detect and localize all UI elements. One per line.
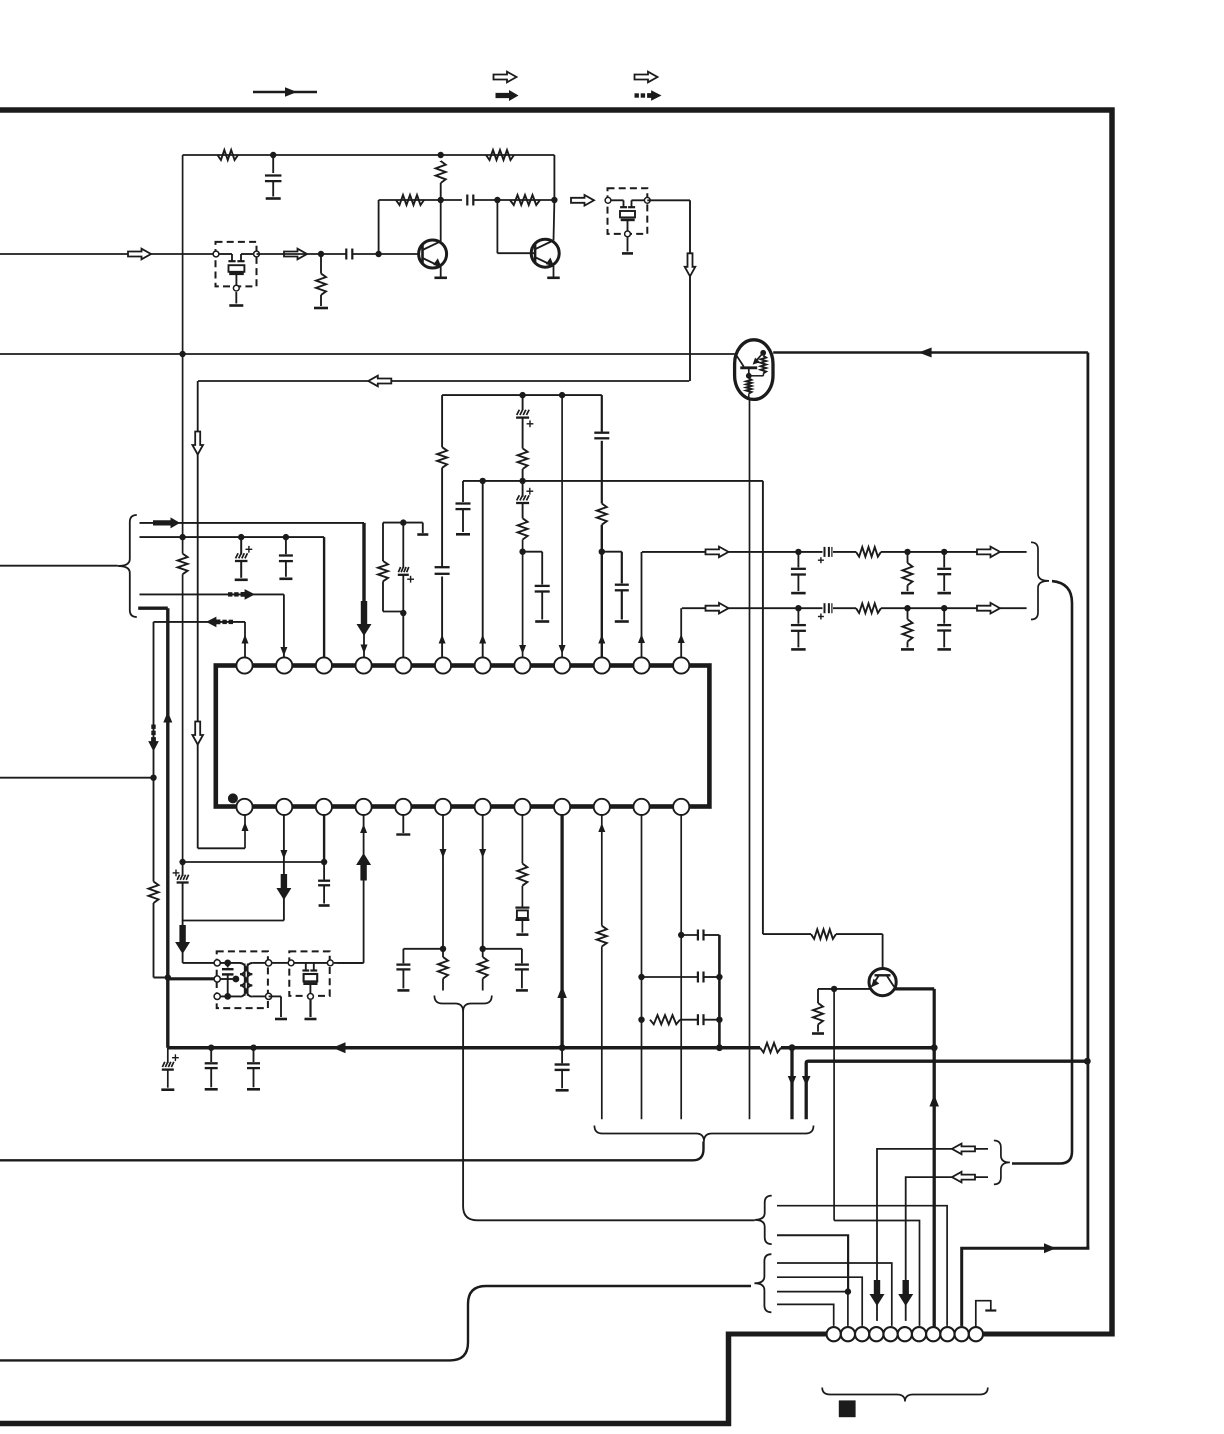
arrow out2 out bbox=[977, 603, 1000, 614]
resistor R23 shunt bbox=[903, 605, 913, 647]
wire line5 bbox=[154, 622, 249, 657]
brace outputs bbox=[1031, 542, 1049, 619]
resistor R11 loop bbox=[378, 523, 403, 612]
wire connector rail right bbox=[982, 1332, 1114, 1337]
node rail2 a bbox=[480, 478, 486, 484]
arrow on Q3 collector bbox=[919, 348, 932, 358]
wire line5 drop bbox=[153, 622, 155, 882]
node J7 bbox=[179, 351, 185, 357]
wire vbias bbox=[182, 155, 184, 862]
wire vcc drop a bbox=[788, 1048, 797, 1120]
legend hollow arrow 2 bbox=[635, 72, 658, 83]
wire FL3 gnd bbox=[309, 1000, 311, 1017]
ground C31 bbox=[791, 592, 806, 595]
wire af line1 bbox=[877, 1149, 988, 1321]
resistor R2 bbox=[218, 150, 239, 160]
capacitor C15 bbox=[594, 433, 609, 439]
capacitor C35 series electrolytic bbox=[818, 603, 832, 619]
arrow down FL2 out bbox=[685, 253, 696, 276]
connector CN1 bbox=[827, 1327, 983, 1341]
node line2 a bbox=[179, 534, 185, 540]
resistor R15 bbox=[478, 957, 488, 991]
wire FL2 out bbox=[647, 200, 690, 381]
capacitor C13 electrolytic bbox=[516, 481, 533, 518]
ground C24 bbox=[556, 1089, 569, 1092]
node rail2 b bbox=[519, 478, 525, 484]
bar pinB5 bbox=[396, 833, 410, 835]
ground C2 bbox=[266, 197, 281, 200]
transformer T1 box bbox=[217, 951, 268, 1008]
arrow sense bbox=[1044, 1243, 1056, 1253]
arrow det 1 bbox=[192, 432, 203, 455]
node bus r bbox=[789, 1044, 796, 1051]
wire pinB10 bbox=[598, 815, 605, 1119]
resistor R1 shunt bbox=[316, 254, 326, 306]
ic U1 top pins bbox=[236, 657, 689, 673]
wire Q4 base bbox=[836, 934, 883, 968]
wire cap join bbox=[718, 935, 721, 1048]
ic U1 bbox=[216, 666, 710, 807]
arrow out2 a bbox=[706, 603, 729, 614]
wire border step bbox=[726, 1332, 732, 1427]
wire bottom border bbox=[0, 1421, 731, 1427]
wire connector rail left bbox=[729, 1332, 828, 1337]
wire pin8 lower bbox=[519, 540, 526, 658]
capacitor C2 bbox=[265, 155, 282, 197]
ground C19 bbox=[279, 577, 292, 580]
ground CN1 bbox=[976, 1301, 997, 1327]
wire pin8 mid bbox=[522, 469, 524, 481]
arrow vcc b bbox=[802, 1076, 811, 1086]
wire ctrl2 b bbox=[777, 1277, 862, 1326]
ground C34 bbox=[791, 648, 806, 651]
wire vcc route b bbox=[806, 1061, 1086, 1119]
wire det line bbox=[198, 381, 249, 848]
resistor R17 bbox=[597, 926, 607, 947]
ground C16 bbox=[615, 620, 629, 623]
wire ctrl2 a bbox=[777, 1263, 892, 1326]
legend dashed arrow bbox=[635, 90, 662, 101]
arrow af2 fat bbox=[898, 1280, 913, 1306]
wire stage2 bbox=[379, 200, 462, 254]
capacitor C31 shunt bbox=[791, 549, 806, 591]
node vcc join bbox=[1084, 1058, 1091, 1065]
resistor R5 bbox=[396, 195, 424, 205]
ground FL1 bbox=[229, 292, 243, 306]
wire af line2 bbox=[906, 1177, 988, 1321]
wire harness stub bbox=[0, 565, 118, 567]
resistor R9 bbox=[518, 518, 528, 539]
wire ctrl1 a bbox=[777, 1206, 947, 1326]
node pin5 top bbox=[400, 519, 406, 525]
arrow af2 bbox=[952, 1172, 975, 1183]
wire long sense bbox=[1087, 353, 1090, 1247]
resistor R8 bbox=[518, 448, 528, 469]
wire conn10 drop bbox=[961, 1248, 963, 1326]
wire out1 main bbox=[642, 551, 1027, 553]
brace CN1 bbox=[822, 1388, 988, 1402]
capacitor C1 series bbox=[346, 249, 352, 260]
ceramic filter FL1 bbox=[213, 251, 259, 291]
wire top border bbox=[0, 107, 1115, 113]
capacitor C19 bbox=[279, 537, 293, 577]
wire sense bottom bbox=[962, 1246, 1088, 1326]
node J6 bbox=[551, 197, 557, 203]
ceramic filter FL1 box bbox=[216, 242, 257, 287]
node line2 c bbox=[283, 534, 289, 540]
node cap join mid bbox=[716, 974, 722, 980]
ground C21 bbox=[319, 904, 330, 907]
transistor Q4 bbox=[869, 969, 896, 996]
ground C30 bbox=[247, 1088, 260, 1091]
ceramic filter FL3 bbox=[288, 960, 333, 999]
node J2 bbox=[375, 251, 381, 257]
wire pinB6 bbox=[440, 815, 447, 957]
ground Q2 emitter bbox=[547, 276, 560, 279]
ground C22 bbox=[397, 989, 409, 992]
wire pinB2 drop bbox=[280, 815, 287, 921]
capacitor C26 series bbox=[698, 1014, 720, 1025]
capacitor C24 bbox=[555, 1065, 570, 1089]
wire T1 top lead bbox=[183, 962, 214, 964]
arrow out1 a bbox=[706, 547, 729, 558]
arrow to FL2 bbox=[571, 195, 594, 206]
capacitor C23 bbox=[483, 949, 529, 989]
wire Q4 sense bbox=[833, 989, 835, 1221]
wire conn8 thick bbox=[929, 1048, 939, 1328]
resistor R7 bbox=[437, 447, 447, 468]
wire pin12 riser bbox=[678, 608, 685, 657]
capacitor C16 bbox=[602, 552, 629, 620]
legend signal wire bbox=[253, 87, 317, 97]
capacitor C3 series bbox=[467, 195, 473, 206]
arrow pinB2 fat bbox=[276, 874, 291, 900]
wire Q3 collector bbox=[773, 351, 1088, 354]
capacitor C25 series bbox=[642, 972, 720, 983]
capacitor C30 bbox=[247, 1048, 260, 1088]
node B11 a bbox=[638, 974, 644, 980]
resistor R16 bbox=[517, 864, 527, 886]
node J4 bbox=[270, 152, 276, 158]
ground Q1 emitter bbox=[434, 276, 447, 279]
capacitor C34 shunt bbox=[791, 605, 806, 647]
legend solid arrow bbox=[496, 90, 519, 101]
arrow af1 fat bbox=[870, 1280, 885, 1306]
wire right border bbox=[1109, 108, 1115, 1337]
ground R22 bbox=[901, 592, 914, 595]
brace af bbox=[994, 1141, 1010, 1185]
wire pinB9 bbox=[557, 815, 567, 1063]
capacitor C32 series electrolytic bbox=[818, 547, 832, 563]
capacitor C22 bbox=[396, 949, 443, 989]
wire return line bbox=[198, 380, 689, 382]
wire pin7 branch bbox=[479, 481, 486, 657]
ground R25 bbox=[812, 1032, 824, 1035]
resistor R20 audio L bbox=[856, 547, 881, 557]
wire pin11 riser bbox=[638, 552, 645, 657]
node pin8 bbox=[519, 549, 525, 555]
node bus c29 bbox=[208, 1045, 214, 1051]
wire pin5 drop bbox=[402, 613, 404, 657]
node bus end bbox=[931, 1044, 938, 1051]
ground C28 bbox=[161, 1088, 174, 1091]
node bias b3 bbox=[321, 859, 327, 865]
mark board bbox=[839, 1400, 856, 1417]
node B6 bbox=[440, 946, 446, 952]
node B12 bbox=[678, 932, 684, 938]
resistor R22 shunt bbox=[903, 549, 913, 591]
node B11 b bbox=[638, 1017, 644, 1023]
capacitor C33 shunt bbox=[937, 549, 951, 591]
legend hollow arrow 1 bbox=[494, 72, 517, 83]
resistor R13 bbox=[178, 554, 188, 575]
wire pinB7 bbox=[479, 815, 486, 957]
wire ctrl2 c bbox=[777, 1291, 848, 1293]
wire Q3 emitter drop bbox=[749, 399, 751, 1119]
wire pinB12 bbox=[680, 815, 682, 1119]
wire line3 bbox=[140, 594, 284, 657]
node rail1 b bbox=[559, 392, 565, 398]
node cap join bus bbox=[716, 1044, 723, 1051]
resistor R10 bbox=[597, 504, 607, 525]
arrow left on return bbox=[368, 376, 391, 387]
capacitor C11 series bbox=[435, 567, 450, 574]
brace ctrl2 bbox=[754, 1254, 771, 1312]
wire rail1 bbox=[442, 394, 602, 396]
underbrace ic low bbox=[594, 1126, 813, 1142]
capacitor C17 electrolytic bbox=[398, 523, 414, 612]
ceramic filter FL2 box bbox=[608, 188, 648, 234]
wire pinB4 bbox=[338, 815, 368, 963]
resistor R18 bbox=[650, 1015, 698, 1024]
wire C1 to Q1 bbox=[352, 253, 418, 255]
ground C33 bbox=[937, 592, 951, 595]
wire Q3 base feed bbox=[733, 353, 736, 355]
wire pin9 branch bbox=[559, 395, 566, 657]
wire top rail drop bbox=[553, 155, 555, 200]
node cap join low bbox=[716, 1017, 722, 1023]
wire line4 bbox=[138, 608, 168, 1047]
capacitor C36 shunt bbox=[937, 605, 951, 647]
node J3b bbox=[438, 152, 444, 158]
transistor Q1 bbox=[419, 200, 447, 277]
node pin10 bbox=[599, 549, 605, 555]
ground C10 bbox=[456, 533, 470, 536]
wire pinB11 bbox=[641, 815, 643, 1119]
resistor R14 bbox=[438, 957, 448, 991]
arrow line4 up bbox=[163, 712, 172, 723]
wire pin10 branch bbox=[598, 395, 605, 657]
node bus c30 bbox=[250, 1045, 256, 1051]
wire pin6 branch bbox=[439, 395, 446, 657]
wire ctrl1 b bbox=[777, 1235, 848, 1291]
ground FL3 bbox=[305, 1018, 317, 1021]
brace xtal group bbox=[434, 996, 491, 1012]
capacitor C28 electrolytic bbox=[162, 1048, 179, 1088]
ground C36 bbox=[937, 648, 951, 651]
resistor R3 bbox=[486, 150, 514, 160]
ground C14 bbox=[535, 620, 549, 623]
wire top rail bbox=[183, 154, 555, 156]
arrow pin4 fat bbox=[357, 601, 372, 636]
wire conn2 drop bbox=[847, 1235, 849, 1326]
transistor Q2 bbox=[497, 200, 559, 277]
arrow af1 bbox=[952, 1144, 975, 1155]
ground pin5 stub bbox=[403, 523, 428, 535]
brace harness left bbox=[118, 515, 137, 617]
wire sw line bbox=[834, 1221, 919, 1326]
brace ctrl1 bbox=[755, 1196, 772, 1245]
wire T1 to FL3 bbox=[272, 962, 288, 964]
resistor R12 bbox=[149, 882, 159, 904]
dashed arrow line5 bbox=[206, 617, 233, 628]
capacitor C18 electrolytic bbox=[235, 537, 252, 578]
resistor R4 feedback bbox=[436, 161, 446, 200]
wire output group bbox=[1012, 581, 1072, 1163]
node J3 bbox=[438, 197, 444, 203]
wire Q4 emitter bbox=[834, 988, 870, 990]
wire gnd return bbox=[0, 777, 154, 779]
wire pinB3 drop bbox=[323, 815, 325, 862]
ic U1 pin1 mark bbox=[228, 793, 238, 803]
wire FL3 out bbox=[334, 962, 364, 964]
node rail1 a bbox=[519, 392, 525, 398]
node vbias low bbox=[179, 859, 185, 865]
capacitor C29 bbox=[205, 1048, 218, 1088]
wire main bus bbox=[168, 1046, 934, 1050]
ic U1 bottom pins bbox=[236, 799, 689, 815]
transistor Q3 bbox=[735, 340, 773, 400]
node line5 bbox=[150, 775, 156, 781]
ground X1 bbox=[516, 933, 528, 936]
wire ctrl2 feed bbox=[0, 1286, 751, 1360]
wire pin4 tail bbox=[361, 634, 368, 657]
arrow pin2 bbox=[280, 647, 287, 656]
node B9 bus bbox=[559, 1044, 566, 1051]
ground R1 bbox=[314, 307, 328, 310]
wire input bbox=[0, 253, 216, 255]
ground T1 bbox=[275, 1018, 287, 1021]
capacitor C27 series bbox=[681, 930, 719, 941]
resonator X1 bbox=[515, 908, 529, 933]
resistor R6 bbox=[510, 195, 540, 205]
wire rail2 bbox=[463, 480, 763, 482]
dashed arrow line3 bbox=[228, 589, 255, 600]
arrow T1 fat bbox=[175, 925, 190, 954]
arrow pinB4 fat bbox=[356, 853, 371, 881]
wire brace stem bbox=[463, 1008, 755, 1221]
capacitor C10 bbox=[456, 481, 471, 532]
node J1 bbox=[318, 251, 324, 257]
wire R12 tail bbox=[154, 903, 172, 981]
resistor R21 audio R bbox=[856, 603, 881, 613]
ground C23 bbox=[516, 989, 528, 992]
node line2 b bbox=[238, 534, 244, 540]
wire to T1 top bbox=[182, 920, 184, 923]
dashed arrow line5 v bbox=[148, 725, 159, 752]
wire T1 ml feed bbox=[168, 977, 214, 980]
ceramic filter FL2 bbox=[605, 197, 650, 236]
ceramic filter FL3 box bbox=[289, 951, 329, 996]
arrow input bbox=[128, 249, 151, 260]
node Q4 e bbox=[831, 986, 837, 992]
ground C18 bbox=[235, 578, 248, 581]
resistor R19 bus bbox=[760, 1043, 781, 1053]
arrow out1 out bbox=[977, 547, 1000, 558]
wire out2 main bbox=[682, 607, 1027, 609]
wire Q4 collector bbox=[895, 989, 934, 1048]
arrow line1 bbox=[153, 517, 180, 528]
resistor R25 bbox=[813, 989, 834, 1032]
arrow det 2 bbox=[192, 722, 203, 745]
wire brace feed bbox=[0, 1142, 704, 1161]
capacitor C14 bbox=[523, 552, 550, 620]
resistor R24 bbox=[811, 929, 836, 939]
ground C29 bbox=[205, 1088, 218, 1091]
ground R23 bbox=[901, 648, 914, 651]
wire pinB8 bbox=[521, 815, 523, 907]
wire AGC line bbox=[0, 353, 734, 355]
capacitor C20 electrolytic bbox=[173, 864, 189, 963]
capacitor C21 bbox=[318, 862, 330, 904]
capacitor C12 electrolytic bbox=[516, 395, 533, 448]
wire rail2 drop bbox=[763, 481, 811, 934]
ground FL2 bbox=[622, 237, 633, 253]
wire C3 to J6 bbox=[473, 199, 554, 201]
wire bias bus bbox=[183, 861, 325, 863]
node ctrl2 c bbox=[845, 1288, 851, 1294]
node J5 bbox=[494, 197, 500, 203]
arrow after FL1 bbox=[284, 249, 307, 260]
wire pinB5 stub bbox=[402, 815, 404, 833]
wire pinB2 route bbox=[183, 920, 284, 922]
wire ctrl2 d bbox=[777, 1304, 834, 1326]
node B7 bbox=[480, 946, 486, 952]
wire FL1 to C bbox=[257, 253, 347, 255]
wire line1 bbox=[140, 523, 365, 614]
wire line2 bbox=[140, 537, 325, 657]
transformer T1 bbox=[214, 960, 272, 1000]
node pin5 bottom bbox=[400, 610, 406, 616]
wire T1 sec gnd bbox=[269, 996, 281, 1017]
arrow bus left bbox=[333, 1042, 346, 1053]
